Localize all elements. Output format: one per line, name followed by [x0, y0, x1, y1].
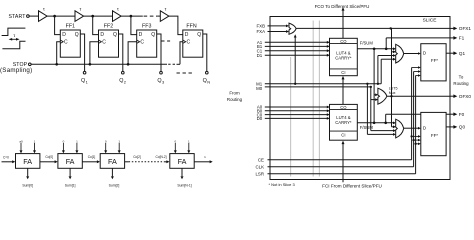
mux D-input upper	[396, 44, 404, 63]
full adder FA4	[170, 154, 194, 169]
label LUT5 Mux	[389, 87, 398, 95]
svg-text:τ: τ	[13, 33, 15, 38]
svg-text:Q: Q	[119, 78, 123, 84]
svg-text:FA: FA	[178, 157, 187, 166]
svg-text:1: 1	[76, 139, 78, 143]
svg-text:D: D	[62, 32, 66, 38]
svg-text:D: D	[423, 125, 426, 130]
wire buffer2 to buffer3	[84, 15, 113, 17]
wire LUT5 mux input 1	[374, 93, 378, 96]
svg-text:0: 0	[63, 139, 65, 143]
wire FFN Q output	[203, 34, 207, 71]
svg-text:Sum[0]: Sum[0]	[22, 183, 33, 187]
svg-text:FF2: FF2	[104, 23, 113, 29]
FA4 input a	[174, 139, 177, 153]
svg-text:Q1: Q1	[459, 51, 466, 56]
input A0	[257, 105, 330, 110]
wire FA4 carry out	[194, 155, 213, 163]
svg-text:CO: CO	[340, 105, 347, 110]
svg-text:CARRY*: CARRY*	[335, 120, 352, 125]
FA2 sum output Sum[1]	[65, 168, 76, 187]
wire stub to lower D-mux input 2	[392, 125, 396, 128]
wire LUT5 mux input 2 from M0	[370, 86, 379, 131]
svg-text:C: C	[102, 40, 106, 46]
FA1 input a	[19, 139, 23, 153]
timing inset waveform B	[2, 41, 25, 48]
wire FF2 D drop	[93, 16, 99, 34]
mux FX (FXB/FXA)	[289, 23, 296, 34]
full adder FA3	[100, 154, 124, 169]
svg-text:a0: a0	[19, 139, 23, 143]
wire buffer4 to FFN D	[169, 16, 183, 34]
svg-text:LSR: LSR	[255, 172, 264, 177]
net F/SUM lower	[357, 121, 396, 130]
wire vertical x374.1 between F/SUM nets	[373, 49, 376, 124]
svg-text:OFX1: OFX1	[459, 26, 472, 31]
wire M1 select riser to FX mux	[294, 34, 297, 85]
net F0 riser	[386, 114, 450, 123]
node QN	[203, 71, 211, 84]
wire LSR riser to FFs	[414, 74, 420, 174]
svg-text:FF*: FF*	[431, 58, 438, 63]
svg-text:FCI From Different Slice/PFU: FCI From Different Slice/PFU	[322, 183, 382, 188]
svg-text:Sum[2]: Sum[2]	[109, 183, 120, 187]
flip-flop FF0 lower	[421, 112, 446, 155]
svg-text:D: D	[139, 32, 143, 38]
wire carry FA2 to FA3 with label Co[1]	[82, 155, 100, 163]
svg-text:CE: CE	[258, 158, 264, 163]
node junction FF2 C	[89, 63, 92, 66]
wire carry FA1 to FA2 with label Co[0]	[40, 155, 58, 163]
wire carry-in to FA1	[2, 160, 16, 163]
svg-text:F/SUM: F/SUM	[360, 40, 374, 45]
svg-text:1: 1	[118, 139, 120, 143]
output OFX0	[450, 94, 471, 99]
output Q1	[450, 51, 465, 56]
FA2 input b	[75, 139, 78, 153]
flip-flop FF2	[99, 23, 119, 57]
wire carry chain lower CO to upper CI	[342, 76, 345, 105]
svg-text:Q: Q	[197, 32, 201, 38]
input FXA	[256, 29, 289, 34]
wire M1 riser to upper D-mux input 3	[377, 54, 396, 85]
wire CLK riser to FFs	[412, 70, 420, 167]
wire CE riser to FFs	[410, 66, 420, 160]
input M0	[256, 86, 371, 91]
svg-text:τ: τ	[43, 7, 45, 12]
svg-text:F1: F1	[459, 36, 465, 41]
wire stub to upper D-mux input 2	[392, 50, 396, 53]
svg-text:Co[N-2]: Co[N-2]	[156, 155, 167, 159]
svg-text:F0: F0	[459, 112, 465, 117]
timing inset delay arrows	[9, 38, 20, 41]
input CE	[258, 158, 412, 163]
svg-text:FA: FA	[66, 157, 75, 166]
svg-text:1: 1	[204, 155, 206, 159]
svg-text:C: C	[64, 40, 68, 46]
net OFX1	[296, 27, 450, 29]
svg-text:3: 3	[162, 79, 165, 84]
svg-text:CI: CI	[341, 70, 345, 75]
wire STOP rail end	[177, 63, 181, 65]
node junction FF3 C	[127, 63, 130, 66]
LUT4 and CARRY lower U0	[330, 104, 358, 140]
svg-text:FFN: FFN	[186, 23, 196, 29]
wire into buffer 4	[158, 15, 161, 17]
net F1 riser	[386, 38, 450, 49]
net Q0 from FF0	[446, 126, 450, 128]
input A1	[257, 40, 330, 45]
buffer tau 1	[39, 7, 48, 22]
wire START to buffer 1	[29, 15, 38, 17]
net FCI from different slice	[322, 141, 382, 189]
svg-text:CLK: CLK	[255, 165, 264, 170]
wire FCO riser from upper CO	[342, 17, 344, 39]
wire STOP rail dashed	[168, 63, 176, 65]
flip-flop FF1	[60, 23, 80, 57]
svg-text:FF*: FF*	[431, 133, 438, 138]
svg-text:Q: Q	[113, 32, 117, 38]
wire FF3 Q output	[157, 34, 161, 71]
wire M0 descender to lower D-mux input 3	[371, 129, 396, 132]
svg-text:1: 1	[188, 139, 190, 143]
node Q2	[119, 71, 127, 84]
FA1 sum output Sum[0]	[22, 168, 33, 187]
node junction FF1 D	[53, 15, 56, 18]
net FCO to different slice	[315, 4, 370, 17]
FA2 input a	[62, 139, 65, 153]
output F0	[450, 112, 465, 117]
wire buffer3 onward	[121, 15, 143, 17]
LUT4 and CARRY upper U1	[330, 38, 358, 75]
svg-text:Q: Q	[151, 32, 155, 38]
wire FFN C riser	[180, 42, 183, 65]
node junction FF3 D	[130, 15, 133, 18]
svg-text:CARRY*: CARRY*	[335, 56, 352, 61]
input B0	[257, 109, 330, 114]
node Q1	[81, 71, 89, 84]
FA3 input a	[104, 139, 107, 153]
svg-text:D: D	[423, 51, 426, 56]
svg-text:(Sampling): (Sampling)	[0, 67, 32, 74]
input LSR	[255, 172, 415, 177]
svg-text:D: D	[100, 32, 104, 38]
svg-text:Routing: Routing	[453, 81, 469, 86]
svg-text:CI: CI	[341, 132, 345, 137]
net F/SUM upper	[357, 40, 396, 50]
svg-text:Q: Q	[203, 78, 207, 84]
node START	[8, 14, 29, 20]
svg-text:FXB: FXB	[256, 24, 265, 29]
wire FF1 C riser	[57, 42, 61, 65]
svg-text:2: 2	[124, 79, 127, 84]
svg-text:Mux: Mux	[389, 91, 396, 95]
timing inset waveform A	[2, 28, 26, 35]
svg-text:Q: Q	[75, 32, 79, 38]
input D1	[257, 53, 330, 58]
svg-text:FF1: FF1	[66, 23, 75, 29]
wire M1 descender to lower D-mux input 4	[366, 83, 396, 136]
wire dashed between Q3 and QN	[177, 72, 194, 74]
input C1	[257, 48, 330, 53]
net Q1 from FF1	[446, 52, 450, 54]
flip-flop FF3	[137, 23, 157, 57]
svg-text:FA: FA	[23, 157, 32, 166]
svg-text:0: 0	[174, 139, 176, 143]
input M1	[256, 82, 381, 87]
svg-text:Sum[N-1]: Sum[N-1]	[177, 183, 191, 187]
svg-text:OFX0: OFX0	[459, 94, 472, 99]
svg-text:0: 0	[105, 139, 107, 143]
flip-flop FFN	[183, 23, 203, 57]
svg-text:To: To	[459, 75, 464, 80]
svg-text:τ: τ	[117, 7, 119, 12]
node STOP	[0, 62, 32, 74]
full adder FA1	[16, 154, 40, 169]
gray routing verticals	[290, 57, 292, 177]
wire FF2 Q output	[119, 34, 123, 71]
svg-text:FCO To Different Slice/PFU: FCO To Different Slice/PFU	[315, 4, 370, 9]
FA4 input b	[187, 139, 190, 153]
FA4 sum output Sum[N-1]	[177, 168, 191, 187]
slice boundary box	[270, 17, 450, 180]
wire FF1 Q output	[80, 34, 84, 71]
label From Routing	[227, 90, 243, 102]
wire FF2 C riser	[90, 42, 99, 65]
flip-flop FF1 upper	[421, 44, 446, 81]
svg-text:FF3: FF3	[142, 23, 151, 29]
buffer tau 4	[160, 7, 169, 22]
output F1	[450, 36, 465, 41]
svg-text:SLICE: SLICE	[423, 18, 437, 24]
node junction FF1 C	[55, 63, 58, 66]
buffer tau 2	[75, 7, 84, 22]
svg-text:Q0: Q0	[459, 125, 466, 130]
FA1 input b	[33, 139, 36, 153]
FA3 sum output Sum[2]	[109, 168, 120, 187]
svg-text:From: From	[229, 90, 240, 95]
svg-text:FXA: FXA	[256, 29, 265, 34]
node Q3	[157, 71, 165, 84]
wire FF3 D drop	[131, 16, 137, 34]
svg-text:Q: Q	[157, 78, 161, 84]
svg-text:CO: CO	[340, 39, 347, 44]
input C0	[257, 112, 330, 117]
svg-text:START: START	[8, 14, 26, 20]
FA3 input b	[118, 139, 121, 153]
wire upper D-mux output to FF1 D	[404, 52, 421, 55]
input FXB	[256, 24, 289, 29]
buffer tau 3	[113, 7, 122, 22]
svg-text:C: C	[140, 40, 144, 46]
svg-text:D0: D0	[257, 116, 263, 121]
input CLK	[255, 165, 413, 170]
svg-text:F/SUM: F/SUM	[360, 125, 374, 130]
svg-text:τ: τ	[165, 7, 167, 12]
svg-text:Co[1]: Co[1]	[88, 155, 96, 159]
svg-text:M0: M0	[256, 86, 263, 91]
mux LUT5	[378, 88, 387, 104]
svg-text:1: 1	[86, 79, 89, 84]
wire STOP rail	[31, 63, 167, 65]
wire FF3 C riser	[128, 42, 137, 65]
wire dashed between FF3 and FFN	[162, 40, 173, 42]
output OFX1	[450, 26, 471, 31]
svg-text:Q: Q	[81, 78, 85, 84]
svg-text:D1: D1	[257, 53, 263, 58]
svg-text:C=0: C=0	[3, 156, 9, 160]
svg-text:N: N	[207, 79, 210, 84]
wire buffer1 to buffer2	[47, 15, 75, 17]
node junction FF2 D	[91, 15, 94, 18]
label To Routing	[453, 75, 469, 87]
svg-text:Co[0]: Co[0]	[45, 155, 53, 159]
svg-text:D: D	[185, 32, 189, 38]
svg-text:C: C	[187, 40, 191, 46]
svg-text:* Not in Slice 3: * Not in Slice 3	[269, 182, 296, 187]
svg-text:FA: FA	[108, 157, 117, 166]
svg-text:Sum[1]: Sum[1]	[65, 183, 76, 187]
wire M1 riser to upper D-mux input 4	[381, 58, 396, 84]
wire OFX riser (vertical x391.5)	[391, 28, 393, 126]
input B1	[257, 44, 330, 49]
svg-text:τ: τ	[79, 7, 81, 12]
full adder FA2	[58, 154, 82, 169]
input D0	[257, 116, 330, 121]
svg-text:Routing: Routing	[227, 97, 243, 102]
net OFX0 from LUT5 mux	[387, 95, 450, 97]
wire dashed delay-line continuation	[144, 15, 158, 17]
svg-text:1: 1	[34, 139, 36, 143]
output Q0	[450, 125, 465, 130]
wire lower D-mux output to FF0 D	[404, 127, 421, 130]
mux D-input lower	[396, 119, 404, 138]
wire carry FA3 to FA4 dashed with labels Co[2] Co[N-2]	[125, 155, 170, 163]
wire FF1 D drop	[55, 16, 61, 34]
svg-text:Co[2]: Co[2]	[133, 155, 141, 159]
